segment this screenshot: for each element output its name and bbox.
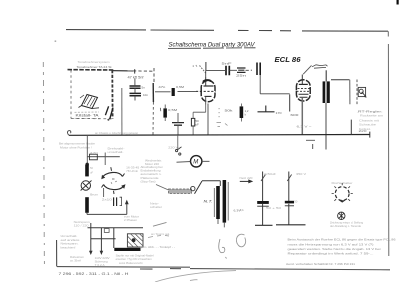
anode callout diagonal <box>303 65 311 74</box>
ground rail under cap B <box>276 224 306 226</box>
pickup label text line 2 <box>77 65 112 69</box>
pentode grid g1 dashed <box>297 90 311 92</box>
cap A top tick <box>261 175 266 182</box>
right rotary bottom arrow <box>339 200 346 202</box>
text below bus left line2 <box>60 146 92 150</box>
svg-text:2 Phasen: 2 Phasen <box>124 218 137 222</box>
cartridge hatched box <box>127 234 143 247</box>
main chassis bus <box>69 134 370 137</box>
triode grid (dashed) <box>196 90 216 92</box>
capacitor C2 (tone, lower) <box>130 93 142 95</box>
label 170 <box>276 111 282 115</box>
bus right end terminal tick <box>369 132 371 138</box>
ground rail under cap A <box>255 224 273 226</box>
C6 leads <box>177 113 179 135</box>
pencil circle fragment <box>236 234 245 247</box>
label 5n <box>142 86 146 90</box>
tone box left edge <box>56 240 58 267</box>
cap B top tick <box>287 175 291 182</box>
svg-text:Saphir nur mit Original-Nadel: Saphir nur mit Original-Nadel <box>116 254 154 258</box>
right rotary radial ticks <box>332 183 353 201</box>
svg-text:5n: 5n <box>142 86 146 90</box>
anode feed pencil line (dashed) <box>200 66 207 75</box>
capacitor C5 <box>257 63 260 76</box>
label 50k <box>225 109 234 113</box>
triode anode plate <box>204 85 214 87</box>
voltage selector vertical 1 <box>90 223 92 252</box>
svg-text:7 296 - 592 - 311 - G.1 - Nil: 7 296 - 592 - 311 - G.1 - Nil - H <box>59 272 129 276</box>
svg-text:der Abstellung n. Tonende: der Abstellung n. Tonende <box>330 224 362 228</box>
tube type label ECL 86 <box>275 55 302 64</box>
scan page border top edge <box>66 30 388 32</box>
box note c <box>116 254 154 265</box>
label 350V <box>296 172 306 176</box>
PCL86 paragraph line1 <box>288 238 396 242</box>
svg-text:ca. 35mA: ca. 35mA <box>70 259 81 263</box>
heater feed wire <box>87 156 120 158</box>
svg-text:muss die Heizspannung von 6,3: muss die Heizspannung von 6,3 V auf 13 V… <box>288 242 374 246</box>
label above R1 <box>176 85 185 89</box>
capacitor C6 to bus <box>172 123 184 126</box>
wire: pickup ground drop to chassis bus <box>121 88 123 135</box>
svg-text:0,1: 0,1 <box>240 208 244 212</box>
pickup label text line 1 <box>78 60 111 64</box>
wire lever to transformer <box>202 181 220 186</box>
right rotary selector label <box>332 181 353 185</box>
svg-text:sonst Plattenverschl.: sonst Plattenverschl. <box>119 261 143 265</box>
speaker LS <box>358 87 365 96</box>
scanner dot left <box>55 40 57 42</box>
svg-text:50: 50 <box>294 199 298 203</box>
junction dot at cap top <box>86 163 89 166</box>
crystal pickup element <box>79 95 100 109</box>
pentode screen wire <box>289 94 291 111</box>
lower arc tail hook <box>102 185 115 195</box>
svg-text:Brum: Brum <box>90 193 99 197</box>
motor M <box>191 156 202 167</box>
svg-text:auf andere: auf andere <box>61 238 81 242</box>
tick left of R2 <box>159 108 162 111</box>
pentode anode plate <box>299 83 308 85</box>
title: Schaltschema Dual party 300AV <box>169 42 256 49</box>
PCL86 paragraph line3 <box>288 247 381 251</box>
svg-text:uF: uF <box>195 123 199 127</box>
power transformer NT core bar 2 <box>223 180 227 223</box>
selector small box on top line <box>104 229 109 233</box>
svg-text:Ruckseite am: Ruckseite am <box>360 114 384 118</box>
svg-text:6,3 V ~: 6,3 V ~ <box>297 124 313 128</box>
resistor R1 on wiper line (dark bar) <box>172 88 175 96</box>
filter cap A plates <box>257 201 269 204</box>
right terminal feed corner <box>350 120 352 135</box>
svg-text:befest.: befest. <box>359 127 371 131</box>
NT side lines <box>214 182 228 221</box>
rotation symbol centre marks <box>111 179 117 184</box>
label 220 near terminal <box>359 129 368 133</box>
speaker arrow head <box>364 95 367 98</box>
svg-text:ECL 86: ECL 86 <box>275 55 302 64</box>
svg-text:.RT-Regler:: .RT-Regler: <box>357 109 383 113</box>
bottom wire of supply column <box>87 204 127 214</box>
output transformer primary bar <box>323 81 326 103</box>
label left of C10 <box>102 198 113 202</box>
svg-text:2x10: 2x10 <box>102 198 113 202</box>
heater drop from bus <box>87 135 105 165</box>
svg-text:47 kft 5nf: 47 kft 5nf <box>128 75 144 79</box>
label 50 right <box>294 199 298 203</box>
PCL86 paragraph line2 <box>288 242 374 246</box>
label 47k <box>128 75 144 79</box>
volume potentiometer body <box>152 83 154 102</box>
wire: dashed screen lead from junction to volume pot <box>133 68 154 83</box>
note under earth line2 <box>330 224 362 228</box>
pickup output contacts (double slash) <box>105 106 113 119</box>
mains push-rod bar <box>169 189 192 193</box>
notes block lines <box>141 165 163 183</box>
electrolytic cap bar C8 <box>85 165 89 177</box>
grid leak resistor R2 (dark bar) <box>163 108 167 117</box>
label beside C8 <box>90 166 93 174</box>
faint text above bus <box>95 132 138 135</box>
hum pot circle <box>81 181 90 190</box>
svg-text:470: 470 <box>90 151 99 155</box>
svg-text:uF: uF <box>90 170 93 174</box>
small marks left of pencil line <box>193 65 197 67</box>
text right of rotary line1 <box>126 166 140 170</box>
mains arrow label <box>240 176 254 180</box>
label Kristall-TA <box>75 112 100 118</box>
wire: pickup box to junction (solid) <box>113 70 133 72</box>
pentode anode lead up <box>301 75 303 85</box>
tone box dashed label line1 <box>74 220 91 224</box>
label N.T. <box>204 199 213 203</box>
RT note line 1 <box>357 109 383 113</box>
coupling capacitor C3 <box>226 66 229 75</box>
scan page border bottom edge <box>57 267 390 270</box>
label 220V~ <box>168 145 180 149</box>
pentode V1b envelope <box>296 80 310 101</box>
cap B minus plate <box>285 205 294 207</box>
pickup dashed box <box>68 70 115 119</box>
svg-text:Ruhestrom: Ruhestrom <box>70 255 85 259</box>
rotation symbol upper arc <box>103 172 123 177</box>
speaker return line (dashed) <box>356 80 358 105</box>
wire C5 to pentode grid <box>260 75 290 94</box>
svg-text:Netz-: Netz- <box>150 202 159 206</box>
speaker feed line <box>349 80 351 105</box>
filter cap B lead <box>288 172 290 225</box>
bus left end hook <box>67 131 70 136</box>
svg-text:5nF: 5nF <box>222 62 232 66</box>
svg-text:T 0,2 A: T 0,2 A <box>95 263 105 267</box>
label 50 <box>195 119 199 126</box>
scanner mark top-right corner <box>397 0 399 5</box>
svg-text:(Stop-Tast): (Stop-Tast) <box>141 179 156 183</box>
R4 leads <box>240 104 242 122</box>
pentode cathode lead to bus <box>301 97 303 134</box>
motor M letter <box>193 160 198 166</box>
small marks below 50k <box>217 123 228 127</box>
pentode g3/cathode <box>299 94 309 97</box>
svg-text:0,5M: 0,5M <box>168 108 178 112</box>
tiny note pair <box>150 202 162 209</box>
label below C4 <box>236 74 247 78</box>
junction dot below contacts <box>107 119 109 121</box>
svg-text:50k: 50k <box>225 109 234 113</box>
capacitor C7 horizontal with tick <box>258 106 275 112</box>
svg-text:110 / 220: 110 / 220 <box>74 223 90 227</box>
pot wiper wire <box>155 90 196 92</box>
push-rod left hook <box>156 185 169 191</box>
svg-text:50: 50 <box>90 166 93 170</box>
stub dash below bus <box>306 139 315 141</box>
text pair mid line1 <box>108 146 125 150</box>
tone box top edge <box>88 227 144 229</box>
arrow head up on wire <box>125 200 129 205</box>
mains switch pivot circle <box>191 186 195 190</box>
capacitor pair C10 <box>114 197 117 206</box>
label 2x50 <box>264 172 276 176</box>
junction tick on screen lead <box>134 69 136 73</box>
mains arrow <box>240 180 250 182</box>
svg-text:Netzspann.: Netzspann. <box>74 220 91 224</box>
right rotary selector ring (dashed) <box>335 187 349 201</box>
svg-text:Motor 220: Motor 220 <box>145 162 159 166</box>
wire: dashed pot drop to chassis bus <box>152 102 154 135</box>
filter cap B plates <box>285 201 294 204</box>
pencil stroke near push-rod <box>153 222 167 226</box>
svg-text:gem. Abb. - - Tonkopf - -: gem. Abb. - - Tonkopf - - <box>140 245 175 249</box>
label under hum pot <box>90 193 99 197</box>
power transformer NT core bar 1 <box>216 186 220 219</box>
upper arc tail hook <box>111 167 125 176</box>
pencil curve bottom <box>155 271 236 282</box>
speaker arrow <box>362 92 366 97</box>
svg-text:Netz 220: Netz 220 <box>240 176 254 180</box>
svg-text:47n: 47n <box>158 85 166 89</box>
arrow head v1 <box>89 251 93 255</box>
svg-text:0,5M: 0,5M <box>176 85 185 89</box>
scan page border right edge <box>387 31 390 256</box>
output label scribble <box>312 65 328 68</box>
cap A minus plate <box>257 205 269 207</box>
NT bottom stubs <box>218 219 224 227</box>
pencil dots row <box>148 236 169 238</box>
arrow head v2 <box>100 251 104 255</box>
filter cap A lead <box>262 172 264 226</box>
svg-text:beachten!: beachten! <box>61 245 76 249</box>
svg-text:Umschalt.: Umschalt. <box>61 234 78 238</box>
earth symbol cross <box>339 212 344 219</box>
wire from rotation symbol down <box>103 188 105 197</box>
motor switch contact <box>176 147 182 155</box>
wire C3 to C4 <box>229 69 252 71</box>
stub below bus b1 <box>312 144 314 149</box>
svg-text:geaendert werden. Siehe hierzu: geaendert werden. Siehe hierzu die Angab… <box>288 247 381 251</box>
wire transformer to speaker <box>331 79 350 81</box>
R3 leads <box>193 105 206 135</box>
resistor R4 (dark bar) <box>240 106 244 118</box>
typed reference number line <box>59 272 129 276</box>
svg-text:Netzspann.: Netzspann. <box>61 242 79 246</box>
triode cathode <box>205 95 212 97</box>
label 600 <box>290 113 299 117</box>
electrolytic cap bar C9 <box>85 197 89 213</box>
triode V1a envelope <box>201 81 215 102</box>
motor label lines <box>145 159 162 167</box>
label 47n on wiper <box>158 85 166 89</box>
tone box dashed label line2 <box>74 223 90 227</box>
text pair mid line2 <box>108 150 124 154</box>
voltage selector vertical 3 <box>113 228 115 248</box>
label 6,3V <box>297 124 313 128</box>
RT note line 4 <box>359 123 377 127</box>
voltage selector vertical 2 <box>100 228 102 252</box>
capacitor C1 (tone, upper) <box>130 86 141 88</box>
svg-text:an Chassis u. Abschirmung gelo: an Chassis u. Abschirmung geloetet <box>95 132 138 135</box>
transformer top lead <box>325 70 327 81</box>
selector cross wire <box>91 238 116 240</box>
box note b <box>95 256 110 267</box>
cathode resistor R3 bracket <box>191 118 194 126</box>
text below wire line2 <box>124 218 137 222</box>
transformer bottom lead through bus <box>325 103 327 150</box>
scan page border left edge (dashed) <box>43 62 44 264</box>
triode dark top <box>203 80 211 82</box>
label above C3 <box>222 62 232 66</box>
box note a <box>70 255 85 263</box>
svg-text:Tonabnehmersystem: Tonabnehmersystem <box>78 60 111 64</box>
triode anode lead <box>205 62 207 86</box>
svg-text:Beim Austausch der Roehre ECL: Beim Austausch der Roehre ECL 86 gegen d… <box>288 238 396 242</box>
tiny note bottom <box>151 232 170 236</box>
label 0,5M <box>168 108 178 112</box>
fuse box on heater line <box>90 154 98 160</box>
svg-text:600: 600 <box>290 113 299 117</box>
svg-text:170: 170 <box>276 111 282 115</box>
cartridge dark circle <box>132 238 136 242</box>
svg-text:2x50uF: 2x50uF <box>264 172 276 176</box>
svg-text:Kristall- TA: Kristall- TA <box>76 114 100 118</box>
svg-text:Aend. vorbehalten Schaltbild: Aend. vorbehalten Schaltbild Nr. 7 296 P… <box>286 262 355 266</box>
earth symbol circle <box>338 212 345 219</box>
svg-text:Schraube: Schraube <box>359 123 377 127</box>
lower arc arrowhead <box>121 184 125 189</box>
mains arrow head <box>248 179 253 183</box>
RT note line 5 <box>359 127 371 131</box>
cartridge base bar <box>114 248 140 251</box>
pentode grid g2 dashed <box>298 87 310 89</box>
svg-text:ersetzen ! Typ DN 2 beachten: ersetzen ! Typ DN 2 beachten <box>116 257 153 261</box>
hum pot scribble arrow <box>81 181 92 191</box>
svg-text:Reparatur unbedingt im Werk an: Reparatur unbedingt im Werk anford. 7 59… <box>288 252 374 256</box>
wire anode to C3 <box>206 70 226 77</box>
motor leads <box>177 160 210 163</box>
PM131 line <box>286 262 355 266</box>
faint dashed note row <box>140 245 175 249</box>
capacitor leads <box>134 79 136 101</box>
triode cathode lead down <box>206 96 208 134</box>
text below bus left line1 <box>59 142 95 146</box>
label above fuse <box>90 151 99 155</box>
R2 leads <box>164 105 166 122</box>
title underline <box>168 47 256 50</box>
label 50/50 <box>266 206 282 210</box>
svg-text:Tonabnehmer TA 24 St: Tonabnehmer TA 24 St <box>77 65 112 69</box>
svg-text:78 U/min: 78 U/min <box>126 169 138 173</box>
svg-text:50 + 50: 50 + 50 <box>266 206 282 210</box>
rotation symbol lower arc <box>104 185 124 190</box>
pencil squiggle mark <box>219 239 227 259</box>
svg-text:Schaltschema Dual party 300AV: Schaltschema Dual party 300AV <box>169 42 256 49</box>
text below wire line1 <box>124 215 139 219</box>
capacitor C4 (trimmer style) <box>237 68 246 72</box>
svg-text:Zeichnung entspr. d. Stellung: Zeichnung entspr. d. Stellung <box>330 221 363 225</box>
dots marks <box>219 108 220 117</box>
bracket right of C10 <box>120 197 122 205</box>
RT note line 3 <box>359 118 379 122</box>
tiny mark under arrow <box>240 208 244 212</box>
svg-text:110V 220V: 110V 220V <box>95 256 110 260</box>
RT note line 2 <box>360 114 384 118</box>
upper arc arrowhead <box>101 175 105 180</box>
svg-text:schalter: schalter <box>150 205 162 209</box>
svg-text:Chassis mit: Chassis mit <box>359 118 379 122</box>
svg-text:350 V: 350 V <box>296 172 306 176</box>
NT right marks <box>234 208 241 212</box>
box text block <box>61 234 81 249</box>
label 1,2k <box>245 109 249 116</box>
svg-text:10n: 10n <box>143 93 148 97</box>
mains switch lever <box>195 181 203 194</box>
motor switch drop from bus <box>177 135 179 150</box>
note under earth line1 <box>330 221 363 225</box>
svg-text:umschalt.: umschalt. <box>108 150 124 154</box>
svg-text:N.T.: N.T. <box>204 199 213 203</box>
label 10n <box>143 93 148 97</box>
PCL86 paragraph line4 <box>288 252 374 256</box>
svg-text:M: M <box>193 160 198 166</box>
text right of rotary line2 <box>126 169 138 173</box>
svg-text:25n: 25n <box>236 74 247 78</box>
output transformer secondary bar <box>327 81 330 103</box>
